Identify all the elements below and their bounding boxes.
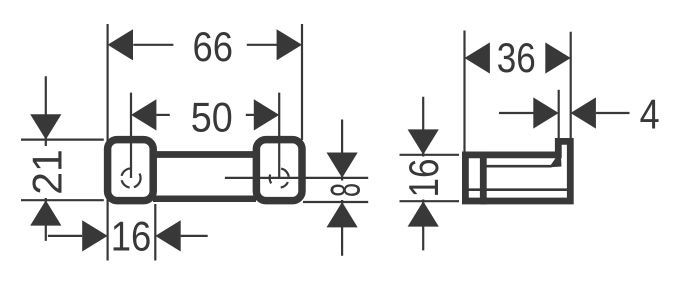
white gap for rotated label 16 right view <box>416 157 430 200</box>
arrow 36 left <box>465 42 490 73</box>
arrow 8 bottom <box>327 202 358 227</box>
svg-text:8: 8 <box>321 183 368 197</box>
arrow 66 left <box>108 29 133 60</box>
bar bottom inner edge (side view) <box>465 188 571 191</box>
extension line top (16 dim right view, y=154.8) <box>400 154 460 156</box>
extension line top (21 dim, y=139.6) <box>21 139 104 141</box>
hook inner diagonal <box>551 153 562 168</box>
arrow 4 left <box>533 97 558 128</box>
arrow 16 right <box>155 220 180 251</box>
right wall plate (front view) <box>256 140 302 201</box>
centre mark circle right <box>270 168 289 187</box>
arrow 36 right <box>545 42 570 73</box>
arrow 21 top <box>30 114 61 139</box>
white gap for rotated label 21 <box>39 146 53 198</box>
left wall plate (front view) <box>108 140 154 201</box>
svg-text:66: 66 <box>193 23 234 70</box>
wall plate rear edge (side view) <box>480 152 487 205</box>
extension line right (16 dim, x=155.3) <box>154 204 156 261</box>
extension line left (36 dim, x=464.5) <box>463 31 465 153</box>
centre line right plate (re-draw over plate) <box>278 136 280 178</box>
bar bottom edge <box>153 195 256 202</box>
arrow 16rv bottom <box>408 201 439 226</box>
extension line right (66 dim, x=302) <box>301 24 303 140</box>
arrow 4 right <box>571 97 596 128</box>
dimension line 16 right view (vertical) <box>422 97 424 251</box>
dimension line 16 (bottom left view) <box>48 235 208 237</box>
extension line right (50 dim, x=279.2) <box>278 93 280 178</box>
centre mark circle left <box>121 168 140 187</box>
svg-text:36: 36 <box>497 34 536 81</box>
bar top inner edge (side view) <box>483 165 552 168</box>
dimension line 21 (vertical) <box>45 76 47 241</box>
arrow 21 bottom <box>30 200 61 225</box>
arrow 50 right <box>254 99 279 130</box>
arrow 8 top <box>327 153 358 178</box>
svg-text:21: 21 <box>23 149 70 195</box>
extension line bottom (16 dim right view, y=201.2) <box>400 200 460 202</box>
extension line top (8 dim, y=177.9 through right plate centre) <box>225 177 368 179</box>
centre line through right plate (horizontal, redraw) <box>253 177 305 179</box>
extension line left (66 dim, x=107.6) <box>106 24 108 261</box>
svg-text:50: 50 <box>191 94 233 141</box>
centre line left plate (re-draw over plate) <box>130 136 132 178</box>
dimension line 66 <box>133 44 277 46</box>
arrow 16 left <box>82 220 107 251</box>
extension line (4 dim, x=558.7) <box>558 90 560 138</box>
white gap for rotated label 8 <box>335 181 349 201</box>
hook profile outline (side view) <box>465 141 570 201</box>
dimension line 4 <box>499 112 630 114</box>
svg-text:4: 4 <box>640 91 660 138</box>
bar top edge <box>153 151 256 158</box>
extension line right (36/4 dim, x=570.7) <box>570 32 572 138</box>
arrow 66 right <box>277 29 302 60</box>
arrow 16rv top <box>408 129 439 154</box>
extension line bottom (21 dim, y=200.2) <box>21 199 104 201</box>
dimension line 50 <box>156 114 255 116</box>
svg-text:16: 16 <box>400 159 447 198</box>
extension line left (50 dim, x=131) <box>130 93 132 178</box>
arrow 50 left <box>131 99 156 130</box>
dimension line 8 (vertical) <box>341 120 343 256</box>
extension line bottom (8 dim, y=202) <box>303 201 368 203</box>
svg-text:16: 16 <box>111 213 152 260</box>
